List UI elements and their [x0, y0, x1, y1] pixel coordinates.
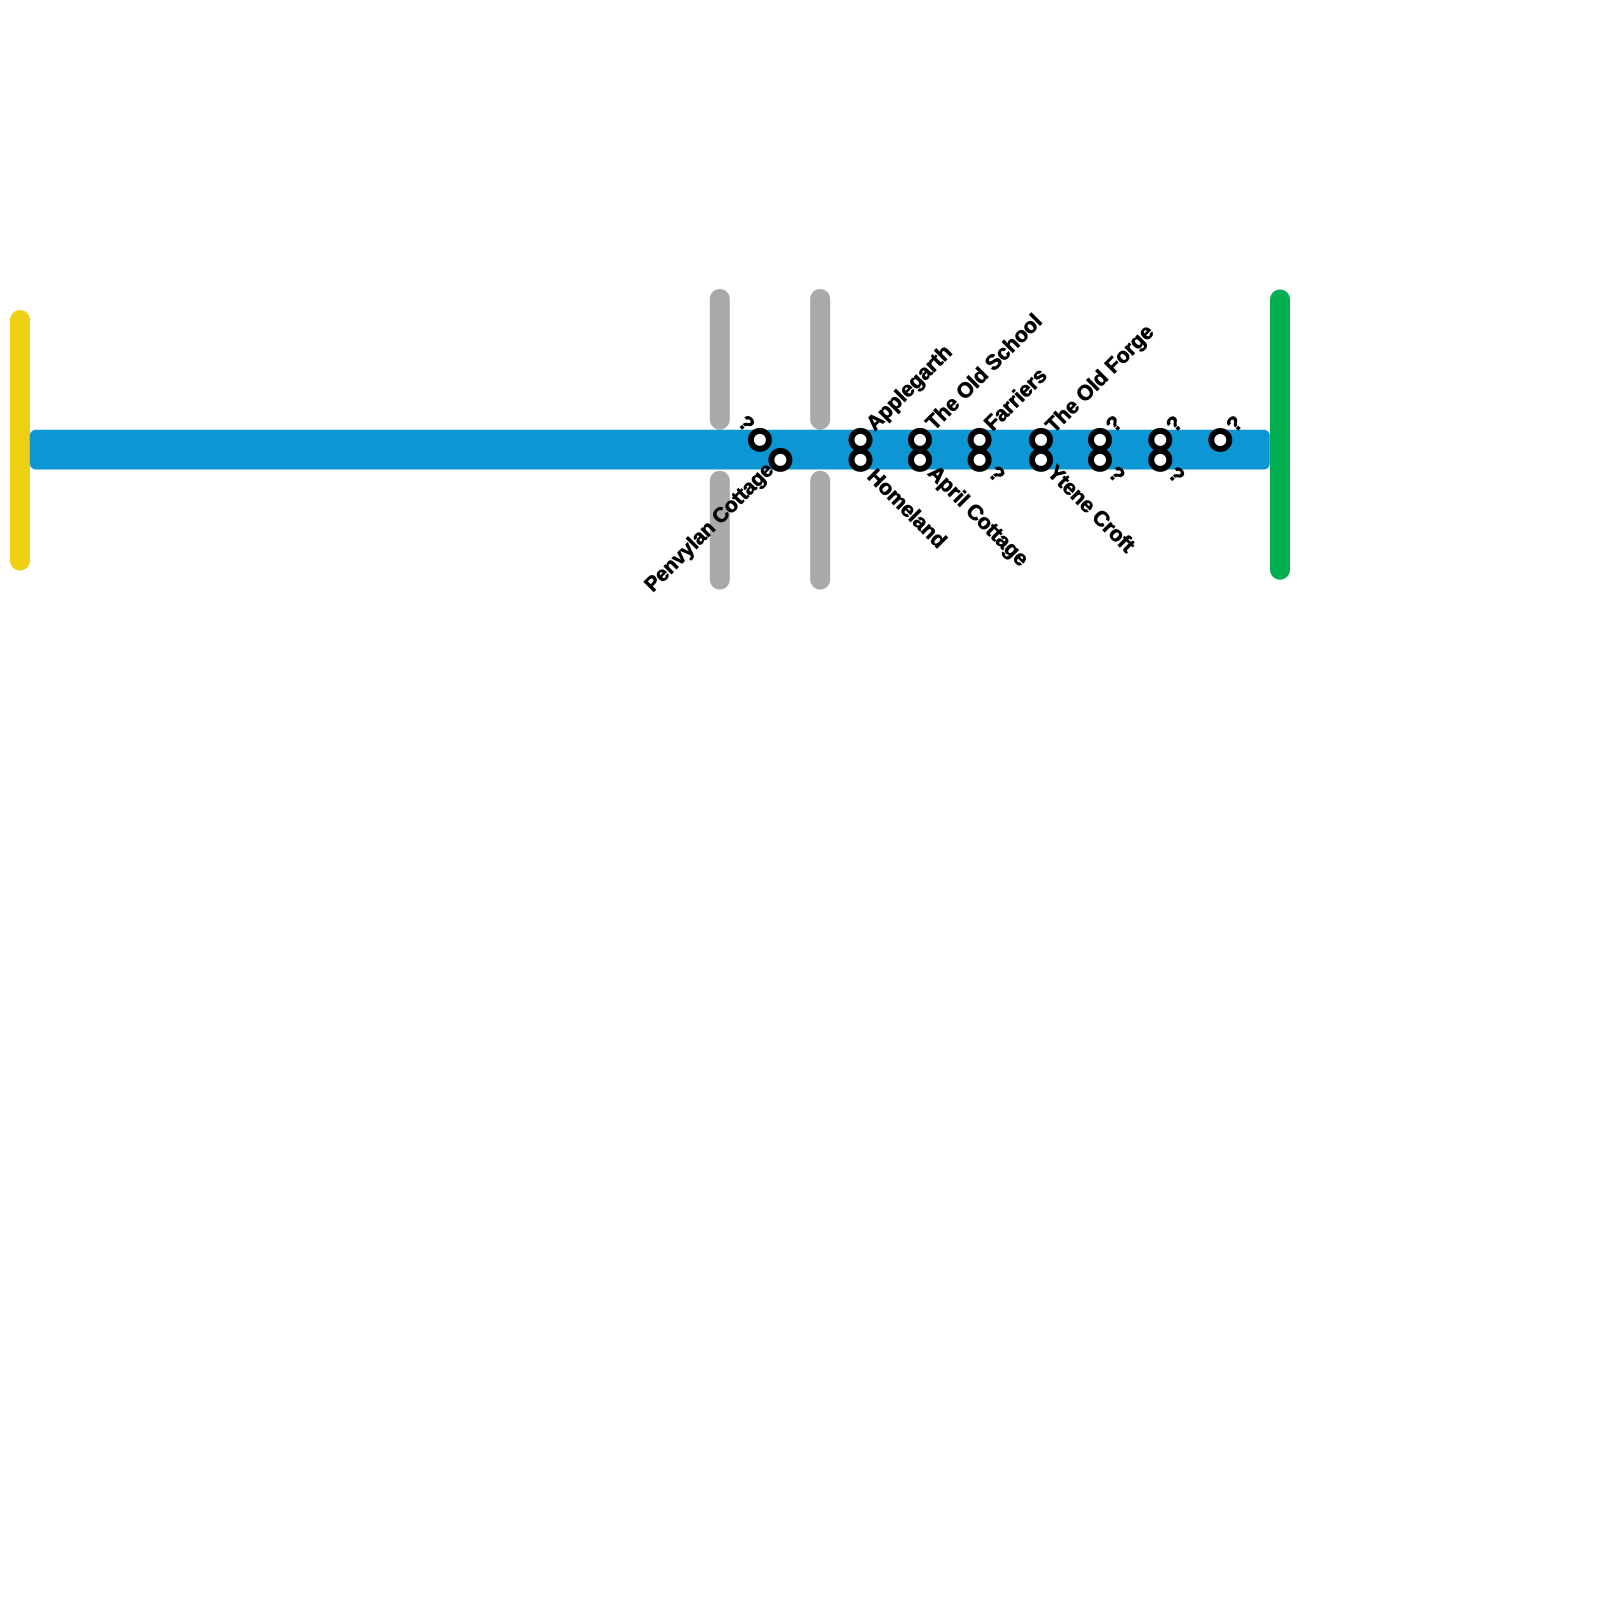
side road 1 lower segment (gray) [710, 481, 730, 580]
house node 4 up [971, 431, 989, 449]
house node 6 down [1091, 451, 1109, 469]
house node 7 down [1151, 451, 1169, 469]
house node 1 down [771, 451, 789, 469]
house node 4 down [971, 451, 989, 469]
house node 7 up [1151, 431, 1169, 449]
main street (blue road) [30, 430, 1270, 470]
start marker (yellow bar, west end of street) [10, 320, 30, 561]
house node 2 down [852, 451, 870, 469]
side road 2 lower segment (gray) [810, 481, 830, 580]
house node 1 up [751, 431, 769, 449]
house node 5 up [1032, 431, 1050, 449]
side road 1 upper segment (gray) [710, 299, 730, 420]
side road 2 upper segment (gray) [810, 299, 830, 420]
house node 3 down [911, 451, 929, 469]
house node 6 up [1091, 431, 1109, 449]
house node 3 up [911, 431, 929, 449]
house node 2 up [852, 431, 870, 449]
house node 8 (single, up) [1211, 431, 1229, 449]
end marker (green bar, east end of street) [1270, 300, 1290, 570]
house node 5 down [1032, 451, 1050, 469]
